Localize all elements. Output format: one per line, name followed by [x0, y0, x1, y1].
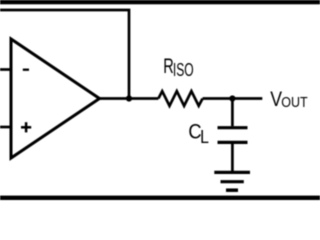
ground symbol bar 1 — [214, 171, 250, 174]
junction node at capacitor takeoff — [229, 95, 235, 101]
wire capacitor to ground — [231, 144, 234, 172]
label V of V_OUT — [270, 87, 282, 111]
wire inverting input stub — [0, 68, 10, 71]
wire resistor to output node — [203, 97, 263, 100]
wire non-inverting input stub — [0, 126, 10, 129]
label C of C_L — [188, 121, 201, 144]
resistor R_ISO — [158, 91, 202, 106]
label OUT subscript of V_OUT — [281, 94, 307, 111]
svg-text:ISO: ISO — [173, 59, 194, 80]
label L subscript of C_L — [200, 127, 209, 148]
capacitor C_L bottom plate — [218, 141, 248, 144]
ground symbol bar 3 — [226, 188, 238, 192]
svg-text:OUT: OUT — [281, 94, 307, 111]
op-amp U1 — [11, 39, 100, 158]
wire feedback loop from output node up and across to left edge — [0, 10, 129, 99]
junction node at feedback takeoff — [126, 95, 132, 101]
bottom border bar — [0, 196, 320, 200]
label ISO subscript of R_ISO — [173, 59, 194, 80]
label R of R_ISO — [163, 55, 174, 78]
capacitor C_L top plate — [218, 126, 248, 129]
wire output node down to capacitor — [231, 99, 234, 127]
top border bar — [0, 0, 320, 4]
op-amp inverting input minus sign — [23, 69, 29, 71]
svg-text:L: L — [200, 127, 209, 148]
ground symbol bar 2 — [221, 180, 244, 183]
wire op-amp output to resistor — [97, 97, 158, 100]
op-amp non-inverting input plus sign — [21, 122, 31, 132]
